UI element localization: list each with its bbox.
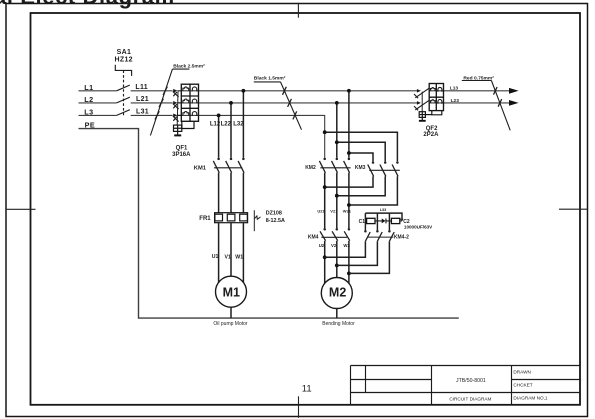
thermal overload FR1 [215,213,248,223]
wire PE [79,129,459,319]
QF1 pole 3 contact [173,115,181,121]
QF2 thermal elements [431,88,436,103]
capacitor C2 [391,218,399,223]
junction KM4C/KM4-2 out3 [347,272,351,276]
svg-text:DRAWN: DRAWN [513,370,531,375]
output arrow L23 [509,100,519,106]
QF1 pole 3 arrow [173,114,177,118]
centering mark left [6,208,36,210]
svg-text:2P2A: 2P2A [423,132,439,138]
wire L12 drop [218,115,220,157]
QF1 pole 2 contact [173,103,181,109]
junction KM2C/KM3 out3 [347,203,351,207]
wire L1 bus [79,90,511,92]
contactor KM4-2 [325,230,395,273]
QF1 magnetic elements [192,87,198,115]
svg-text:3P16A: 3P16A [172,152,191,158]
QF1 pole 1 arrow [173,89,177,93]
svg-text:Black 2.5mm²: Black 2.5mm² [173,63,205,69]
junction KM3 pole3 tap [323,130,327,134]
svg-text:L3: L3 [84,107,93,116]
svg-text:L23: L23 [451,98,460,104]
wire L32 drop [242,91,244,158]
svg-text:KM1: KM1 [194,165,207,171]
motor M2 [321,278,352,309]
svg-text:L2: L2 [84,95,93,104]
svg-text:al Elect Diagram: al Elect Diagram [0,0,175,9]
svg-text:V1: V1 [225,255,231,261]
C2 terminal tick [400,218,403,220]
svg-text:W21: W21 [343,209,352,214]
output arrow L13 [509,88,519,94]
svg-text:L33: L33 [380,208,387,212]
svg-text:Bending Motor: Bending Motor [322,321,355,327]
svg-text:U2: U2 [319,243,325,248]
switch SA1 [115,65,131,116]
wire bus2 to KM2 pole B [336,103,338,158]
junction L12 tap [217,114,221,118]
svg-text:C1: C1 [359,219,366,225]
svg-text:FR1: FR1 [199,216,211,222]
junction KM2A/KM3 out1 [323,185,327,189]
svg-text:V2: V2 [331,243,337,248]
QF2 ground bar [419,120,426,122]
QF1 body box [181,84,198,121]
QF2 mechanism step box [432,111,442,115]
FR1 trip indicator [254,210,260,231]
junction KM3 pole2 tap [335,140,339,144]
KM2/KM3 feeder drops [325,91,398,162]
circuit breaker QF1 [173,91,181,122]
QF1 thermal elements [183,87,189,116]
svg-text:KM2: KM2 [305,165,316,171]
svg-text:KM4-2: KM4-2 [394,235,409,241]
M2 ground lead [336,309,338,319]
cable marker Red 0.75mm2 [462,75,510,130]
svg-text:W1: W1 [235,255,243,261]
junction KM4A/KM4-2 out1 [323,255,327,259]
svg-text:L31: L31 [136,108,149,115]
svg-text:DIAGRAM NO,1: DIAGRAM NO,1 [513,395,548,400]
centering mark top [297,3,299,18]
svg-text:M1: M1 [223,285,240,299]
svg-text:JTB/50-8001: JTB/50-8001 [456,378,486,384]
centering mark right [559,208,588,210]
wire L3 bus [79,115,325,157]
junction L22 tap [229,101,233,105]
svg-text:Oil pump Motor: Oil pump Motor [213,321,248,327]
svg-text:L22: L22 [221,121,232,127]
junction bus2/KM2B [335,101,339,105]
svg-text:QF1: QF1 [176,146,188,152]
contactor KM3 [325,161,400,205]
svg-text:L11: L11 [135,84,148,91]
svg-text:SA1: SA1 [117,49,132,56]
svg-text:PE: PE [85,120,96,129]
svg-text:M2: M2 [329,286,346,300]
QF1 mechanism step box [182,121,194,128]
title block [351,366,581,405]
svg-text:L13: L13 [450,85,459,91]
junction L32 tap [242,89,246,93]
wire crossover to KM3 pole 3 [325,132,398,161]
svg-text:CIRCUIT DIAGRAM: CIRCUIT DIAGRAM [449,396,491,401]
cable marker Black 2.5mm2 [150,63,205,135]
M1 ground lead [230,307,232,318]
QF2 body box [429,84,443,111]
svg-text:DZ108: DZ108 [266,211,282,217]
junction bus1/KM2C [347,89,351,93]
QF1 ground bar [174,134,181,136]
svg-text:L32: L32 [233,121,244,127]
QF2 pole 2 arrow [417,101,421,105]
cable marker Black 1.5mm2 [254,75,302,129]
svg-text:11: 11 [302,383,312,394]
svg-text:L21: L21 [136,96,149,103]
centering mark bottom [298,396,300,418]
QF2 magnetic elements [438,87,442,103]
contactor KM1 [213,158,244,213]
svg-text:V21: V21 [330,209,338,214]
junction KM2B/KM3 out2 [335,194,339,198]
QF2 pole 2 contact [414,100,429,110]
wire L2 bus [79,102,511,104]
motor M1 [216,276,247,307]
svg-text:CHCKET: CHCKET [513,383,532,388]
svg-text:KM3: KM3 [355,165,366,171]
circuit breaker QF2 [414,88,429,112]
contactor KM2 [319,158,350,228]
wire U1 [218,223,220,283]
wire W1 [242,223,244,283]
svg-text:QF2: QF2 [426,126,438,132]
svg-text:HZ12: HZ12 [115,57,133,64]
contactor KM4 [320,228,350,283]
svg-text:8-12.5A: 8-12.5A [266,218,285,224]
QF2 undervoltage release coil [419,112,432,118]
QF1 undervoltage release coil [174,125,182,131]
QF1 release lead [177,131,179,135]
QF2 pole 1 arrow [417,89,421,93]
svg-text:L1: L1 [84,83,93,92]
QF1 pole 1 contact [173,91,181,97]
junction KM3 pole1 tap [347,151,351,155]
svg-text:10000UF/63V: 10000UF/63V [404,225,433,230]
QF1 pole 2 arrow [173,101,177,105]
QF2 pole 1 contact [414,88,429,98]
node L33 bus [365,213,402,230]
wire crossover to KM3 pole 2 [337,142,385,161]
svg-text:W2: W2 [343,243,350,248]
wire crossover to KM3 pole 1 [349,153,373,161]
svg-text:U21: U21 [317,209,325,214]
svg-text:Black 1.5mm²: Black 1.5mm² [254,75,286,81]
QF1 trip linkage [176,92,179,126]
capacitor C1 [365,220,366,222]
wire V1 [230,223,232,277]
svg-text:KM4: KM4 [308,235,319,241]
QF2 release lead [421,117,423,120]
diode link between C1 and C2 [375,220,391,222]
junction KM4B/KM4-2 out2 [335,264,339,268]
svg-text:U1: U1 [212,254,219,260]
wire bus1 to KM2 pole C [348,91,350,158]
wire L22 drop [230,103,232,158]
QF2 trip linkage [421,92,423,112]
